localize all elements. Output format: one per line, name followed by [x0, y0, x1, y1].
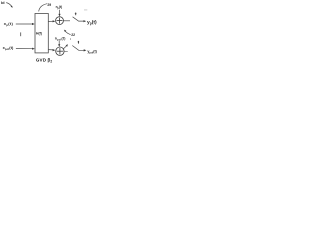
sampler label t top: [75, 13, 77, 16]
svg-text:npol(t): npol(t): [55, 37, 66, 42]
stray mark: [69, 38, 72, 40]
annotation arrow to 22: [65, 31, 70, 34]
svg-text:ypol(t): ypol(t): [87, 50, 97, 55]
svg-text:22: 22: [71, 33, 75, 37]
wire stub bottom adder: [64, 51, 68, 53]
wire top output of block: [48, 20, 53, 22]
noise arrow top: [59, 10, 61, 15]
wire top input: [16, 23, 33, 25]
wire bottom input: [16, 48, 33, 50]
svg-text:xpol(t): xpol(t): [3, 45, 14, 51]
sampler label t bottom: [78, 41, 80, 44]
faint dash: [84, 9, 87, 12]
svg-text:yp(t): yp(t): [87, 19, 97, 25]
svg-text:np(t): np(t): [56, 5, 63, 10]
adder top: [56, 17, 64, 25]
svg-text:H(f): H(f): [36, 32, 42, 36]
block H(f): [35, 14, 48, 53]
wire bottom output of block: [48, 49, 53, 51]
adder bottom: [56, 47, 64, 55]
stray tick: [19, 32, 22, 36]
wire adder to sampler top: [64, 20, 71, 22]
svg-text:xp(t): xp(t): [4, 21, 14, 27]
annotation arrow from bottom adder: [63, 46, 66, 49]
annotation arrow from Id: [6, 3, 12, 7]
svg-text:GVD β2: GVD β2: [36, 57, 53, 63]
noise arrow bottom: [58, 41, 60, 45]
sampler switch bottom: [72, 46, 84, 51]
sampler switch top: [73, 17, 85, 21]
annotation arc to 29: [39, 4, 48, 12]
svg-text:Id: Id: [1, 0, 5, 5]
svg-text:29: 29: [47, 3, 51, 7]
